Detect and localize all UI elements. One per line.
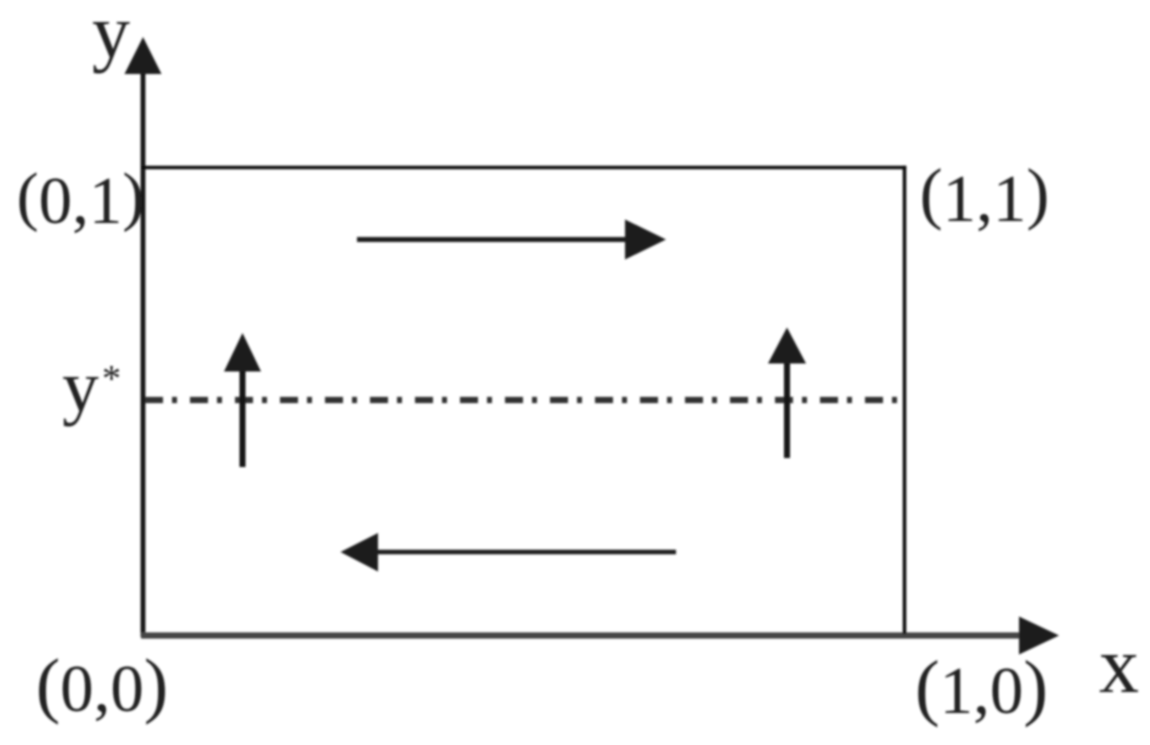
svg-text:(1,0): (1,0) — [915, 647, 1048, 729]
svg-text:y: y — [62, 346, 99, 427]
svg-text:x: x — [1099, 622, 1139, 710]
svg-text:(0,0): (0,0) — [36, 644, 168, 726]
svg-text:(0,1): (0,1) — [17, 160, 145, 238]
svg-text:(1,1): (1,1) — [920, 155, 1050, 236]
svg-text:*: * — [102, 358, 121, 400]
svg-text:y: y — [92, 0, 130, 74]
